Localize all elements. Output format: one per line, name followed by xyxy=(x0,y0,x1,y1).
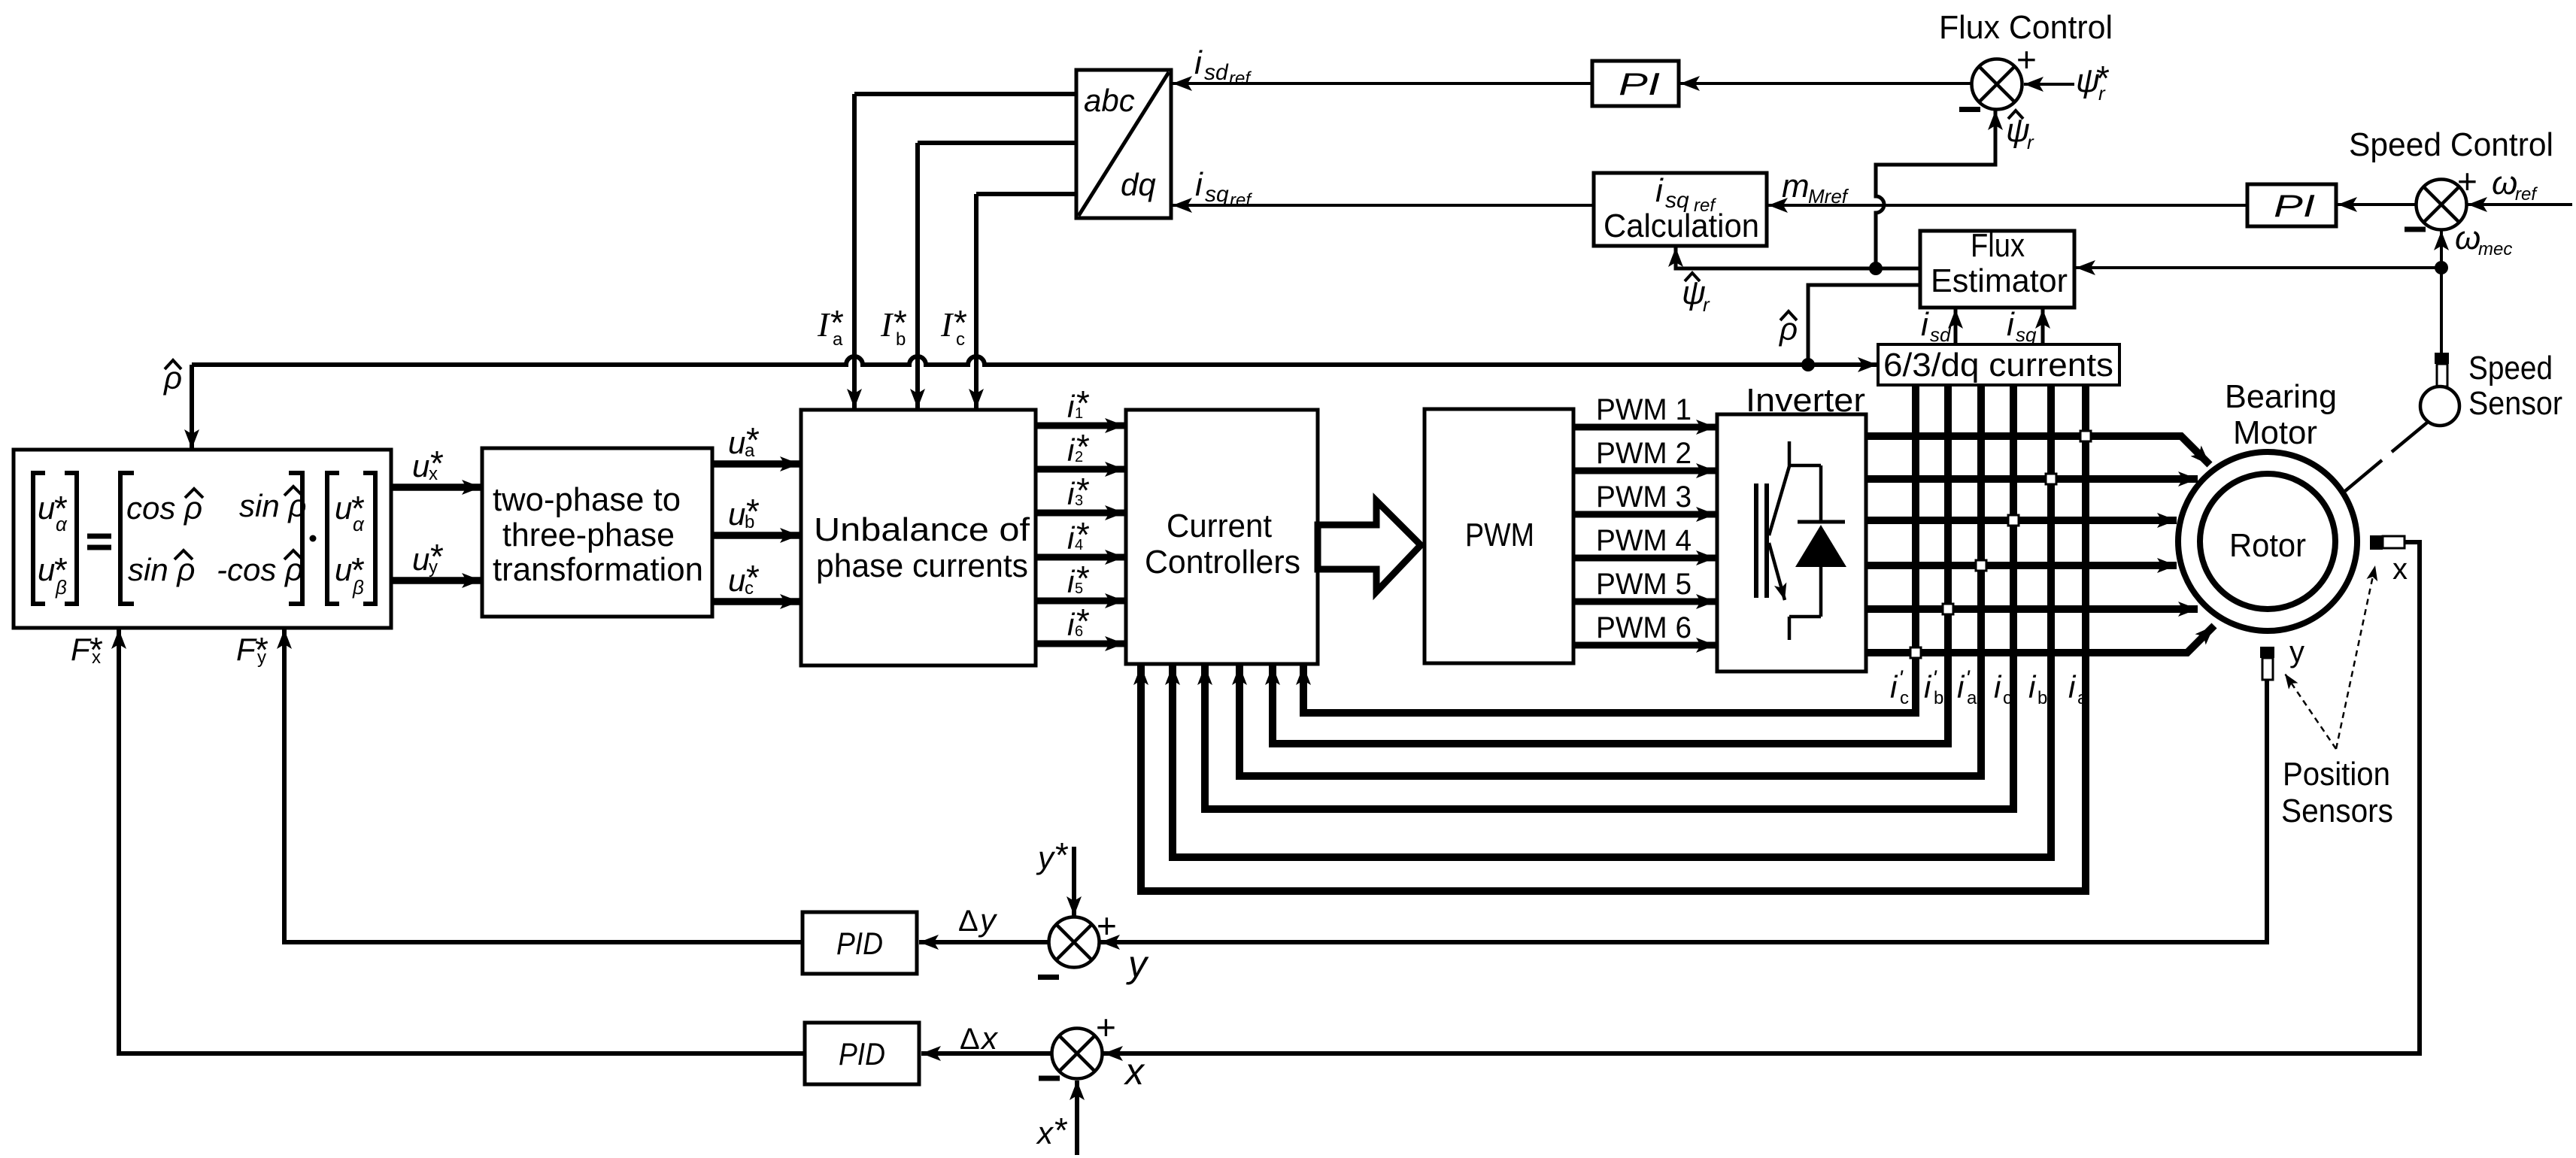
svg-text:y: y xyxy=(257,647,266,668)
dot operator xyxy=(310,535,317,542)
svg-text:b: b xyxy=(745,512,754,532)
summing junction flux control xyxy=(1972,59,2022,110)
svg-text:2: 2 xyxy=(1075,449,1083,465)
svg-text:+: + xyxy=(2457,162,2477,201)
svg-text:Estimator: Estimator xyxy=(1931,262,2068,299)
svg-text:r: r xyxy=(1703,293,1710,316)
x sensor white xyxy=(2383,536,2405,548)
svg-text:three-phase: three-phase xyxy=(502,517,675,553)
svg-text:a: a xyxy=(745,441,755,461)
block PI speed xyxy=(2247,184,2336,226)
IGBT bottom connect xyxy=(1789,615,1821,619)
svg-text:F: F xyxy=(71,632,92,667)
wire sense ib vertical+feedback xyxy=(1173,385,2051,857)
wire y* into y summing xyxy=(1072,847,1076,916)
wire flux summing to PI xyxy=(1680,82,1971,85)
svg-text:PWM: PWM xyxy=(1465,517,1534,553)
block matrix equation xyxy=(14,450,391,628)
svg-text:6/3/dq currents: 6/3/dq currents xyxy=(1883,347,2113,383)
svg-text:sq: sq xyxy=(2016,323,2037,346)
svg-text:x: x xyxy=(980,1020,999,1056)
svg-text:Calculation: Calculation xyxy=(1604,208,1759,244)
y sensor black xyxy=(2260,647,2274,658)
wire Ic* stub to abc/dq xyxy=(976,192,1076,196)
svg-text:PWM 6: PWM 6 xyxy=(1596,611,1692,644)
svg-text:y: y xyxy=(2289,635,2304,668)
svg-text:Δ: Δ xyxy=(958,905,979,938)
wire speed feedback to Flux Estimator xyxy=(2076,266,2441,269)
wire phase line 4 xyxy=(1866,562,2177,569)
svg-text:x: x xyxy=(92,647,101,668)
wire isd from 6/3/dq to Flux Estimator xyxy=(1954,309,1958,344)
svg-text:u: u xyxy=(728,425,745,460)
dashed arrow to x sensor xyxy=(2336,565,2375,749)
svg-text:Δ: Δ xyxy=(960,1023,980,1056)
svg-text:u: u xyxy=(728,562,745,598)
svg-text:ω: ω xyxy=(2455,220,2480,256)
svg-text:α: α xyxy=(353,513,365,535)
svg-text:c: c xyxy=(745,578,754,599)
block Unbalance of phase currents xyxy=(801,410,1036,665)
block PWM xyxy=(1425,409,1573,663)
wire PWM 6 xyxy=(1573,642,1716,649)
junction dot psi_r-hat xyxy=(1869,262,1883,275)
matrix brackets xyxy=(120,473,134,604)
svg-text:x: x xyxy=(1124,1050,1145,1093)
wire u*a two-phase to Unbalance xyxy=(712,460,800,468)
block PI flux xyxy=(1592,61,1679,106)
x sensor black xyxy=(2370,535,2383,550)
svg-text:u: u xyxy=(335,552,352,587)
svg-text:b: b xyxy=(2037,688,2047,708)
wire PWM 3 xyxy=(1573,511,1716,518)
svg-text:I: I xyxy=(817,305,831,344)
svg-text:*: * xyxy=(1055,835,1069,875)
wire x position feedback xyxy=(1103,542,2420,1053)
IGBT emitter with arrow xyxy=(1769,543,1785,600)
svg-text:b: b xyxy=(896,329,906,350)
svg-text:u: u xyxy=(38,552,55,587)
wire psi_r-hat from Flux Estimator to Calculation xyxy=(1676,247,1920,268)
svg-text:Sensors: Sensors xyxy=(2281,793,2393,829)
wire psi_r* into flux summing xyxy=(2024,83,2074,86)
svg-text:y: y xyxy=(978,902,998,938)
svg-text:sin ρ: sin ρ xyxy=(239,488,306,523)
svg-text:PID: PID xyxy=(836,926,883,961)
svg-text:x: x xyxy=(2392,553,2408,586)
svg-text:sq: sq xyxy=(1205,182,1229,207)
block two-phase to three-phase transformation xyxy=(482,448,712,617)
block Flux Estimator xyxy=(1920,231,2074,308)
wire x* into x summing xyxy=(1075,1081,1079,1155)
wire u*b two-phase to Unbalance xyxy=(712,532,800,539)
svg-text:PWM 3: PWM 3 xyxy=(1596,480,1692,514)
speed sensor stem white xyxy=(2437,364,2447,387)
svg-text:Motor: Motor xyxy=(2233,414,2317,451)
svg-text:α: α xyxy=(56,513,68,535)
wire sense i'a vertical+feedback xyxy=(1239,385,1981,776)
wire F*y PID to matrix xyxy=(284,629,803,942)
wire isq from 6/3/dq to Flux Estimator xyxy=(2041,309,2045,344)
IGBT top connect xyxy=(1789,464,1821,468)
svg-text:+: + xyxy=(1097,906,1117,945)
svg-text:sd: sd xyxy=(1930,323,1952,346)
svg-text:a: a xyxy=(1967,688,1977,708)
diode triangle xyxy=(1795,525,1846,567)
svg-text:m: m xyxy=(1782,168,1810,205)
motor outer circle xyxy=(2178,452,2357,631)
svg-text:+: + xyxy=(1096,1008,1116,1047)
wire sense i'c vertical+feedback xyxy=(1303,385,1916,713)
svg-text:Rotor: Rotor xyxy=(2229,527,2306,564)
tap square ia on phase 1 xyxy=(2080,431,2091,441)
svg-text:c: c xyxy=(956,329,965,350)
block PID y xyxy=(803,912,917,974)
block arrow Current Controllers to PWM xyxy=(1318,501,1421,592)
svg-text:Speed: Speed xyxy=(2468,350,2553,387)
svg-text:y: y xyxy=(1126,943,1149,985)
svg-text:i: i xyxy=(1195,166,1203,203)
svg-text:transformation: transformation xyxy=(493,551,703,588)
svg-text:u: u xyxy=(38,490,55,526)
wire rho-hat branch up to Flux Estimator xyxy=(1808,285,1920,365)
svg-text:i: i xyxy=(1194,44,1203,81)
wire i3* xyxy=(1036,510,1124,517)
wire u*c two-phase to Unbalance xyxy=(712,598,800,605)
wire omega_ref into speed summing xyxy=(2468,203,2572,206)
wire i4* xyxy=(1036,554,1124,561)
svg-text:Position: Position xyxy=(2283,756,2390,793)
IGBT bars xyxy=(1754,484,1758,598)
wire Ia* stub to abc/dq xyxy=(854,92,1076,96)
tap square i'b on phase 5 xyxy=(1943,604,1953,614)
svg-text:y: y xyxy=(1036,840,1056,875)
svg-text:cos ρ: cos ρ xyxy=(126,490,202,526)
wire F*x PID to matrix xyxy=(119,629,805,1053)
svg-text:ref: ref xyxy=(2515,184,2538,205)
wire omega_mec up into speed summing xyxy=(2440,231,2443,268)
motor inner circle xyxy=(2200,474,2335,609)
equals sign xyxy=(87,534,111,539)
wire i1* xyxy=(1036,423,1124,429)
svg-text:PI: PI xyxy=(2274,188,2315,223)
wire PWM 4 xyxy=(1573,555,1716,562)
svg-text:u: u xyxy=(335,490,352,526)
summing junction y xyxy=(1049,917,1100,968)
svg-text:PWM 5: PWM 5 xyxy=(1596,568,1692,601)
svg-text:c: c xyxy=(1900,688,1909,708)
svg-text:u: u xyxy=(728,496,745,532)
wire i2* xyxy=(1036,466,1124,473)
svg-text:u: u xyxy=(412,448,429,484)
svg-text:ref: ref xyxy=(1230,190,1252,211)
tap square ib on phase 2 xyxy=(2046,474,2056,484)
svg-text:r: r xyxy=(2098,82,2106,105)
IGBT emitter stub xyxy=(1788,617,1792,640)
svg-text:dq: dq xyxy=(1121,167,1156,202)
svg-text:*: * xyxy=(1054,1111,1068,1150)
svg-text:Inverter: Inverter xyxy=(1746,382,1865,419)
wire rho-hat down into matrix block xyxy=(190,365,194,449)
svg-text:two-phase to: two-phase to xyxy=(493,481,681,518)
svg-text:Bearing: Bearing xyxy=(2225,378,2337,415)
abc/dq diagonal xyxy=(1079,72,1169,216)
svg-text:PID: PID xyxy=(839,1036,885,1072)
wire isd_ref from flux PI to abc/dq xyxy=(1173,82,1592,85)
svg-text:i: i xyxy=(2007,306,2015,343)
wire Ia* vertical xyxy=(852,94,857,408)
wire sense ic vertical+feedback xyxy=(1205,385,2013,809)
svg-text:phase currents: phase currents xyxy=(816,547,1028,584)
svg-text:PWM 1: PWM 1 xyxy=(1596,393,1692,426)
svg-text:3: 3 xyxy=(1075,493,1083,509)
svg-text:a: a xyxy=(2077,688,2088,708)
svg-text:β: β xyxy=(352,576,364,599)
summing junction speed control xyxy=(2417,180,2467,230)
svg-text:u: u xyxy=(412,541,429,577)
svg-text:F: F xyxy=(236,632,257,667)
svg-text:Speed Control: Speed Control xyxy=(2349,126,2553,163)
wire i6* xyxy=(1036,641,1124,647)
left vector brackets xyxy=(33,473,45,604)
speed sensor circle xyxy=(2420,387,2459,426)
tap square ic on phase 3 xyxy=(2008,515,2019,526)
svg-text:c: c xyxy=(2003,688,2012,708)
svg-text:Controllers: Controllers xyxy=(1145,544,1300,581)
svg-text:sd: sd xyxy=(1204,60,1229,85)
wire phase line 2 xyxy=(1866,475,2198,483)
svg-text:x: x xyxy=(1036,1115,1054,1150)
wire Ic* vertical xyxy=(974,194,979,408)
tap square i'c on phase 6 xyxy=(1910,647,1921,658)
svg-text:PWM 2: PWM 2 xyxy=(1596,437,1692,470)
wire u*x matrix to two-phase block xyxy=(391,484,481,491)
svg-text:Unbalance of: Unbalance of xyxy=(814,511,1030,548)
block PID x xyxy=(805,1023,919,1084)
block Inverter xyxy=(1717,414,1866,671)
svg-text:Sensor: Sensor xyxy=(2468,385,2562,422)
wire y position feedback xyxy=(1100,680,2267,942)
wire speed sensor vertical xyxy=(2440,268,2443,353)
svg-text:r: r xyxy=(2027,131,2034,153)
svg-text:ref: ref xyxy=(1229,68,1252,89)
svg-text:Mref: Mref xyxy=(1808,185,1849,208)
summing junction x xyxy=(1052,1029,1103,1079)
svg-text:i: i xyxy=(1655,172,1664,209)
block isq_ref Calculation xyxy=(1594,173,1767,246)
speed sensor shaft diagonal xyxy=(2392,423,2427,452)
wire psi_r-hat vertical branch with hop over m_Mref xyxy=(1876,111,1995,268)
wire phase line 6 inverter to motor xyxy=(1866,626,2214,653)
svg-text:6: 6 xyxy=(1075,623,1083,640)
wire u*y matrix to two-phase block xyxy=(391,577,481,584)
svg-text:β: β xyxy=(55,576,67,599)
wire PWM 1 xyxy=(1573,424,1716,431)
right vector brackets xyxy=(327,473,339,604)
wire PWM 5 xyxy=(1573,599,1716,605)
svg-text:5: 5 xyxy=(1075,581,1083,597)
dashed arrow to y sensor xyxy=(2285,674,2336,749)
svg-text:x: x xyxy=(429,464,438,484)
svg-text:4: 4 xyxy=(1075,537,1083,553)
speed sensor stem black xyxy=(2435,353,2449,364)
svg-text:y: y xyxy=(429,557,438,577)
wire speed summing to speed PI xyxy=(2338,203,2417,206)
svg-text:Flux Control: Flux Control xyxy=(1939,9,2113,46)
wire Delta-y summing to PID xyxy=(919,940,1049,944)
wire sense ia vertical+feedback xyxy=(1141,385,2086,891)
svg-text:Flux: Flux xyxy=(1971,227,2025,264)
wire m_Mref from speed PI to Calculation xyxy=(1768,204,2247,207)
junction dot omega_mec xyxy=(2435,261,2448,274)
svg-text:PI: PI xyxy=(1619,66,1660,102)
svg-text:i: i xyxy=(1921,306,1929,343)
y sensor white xyxy=(2262,658,2273,680)
block Current Controllers xyxy=(1126,410,1318,664)
svg-text:ω: ω xyxy=(2492,165,2517,202)
wire Delta-x summing to PID xyxy=(921,1051,1051,1056)
junction dot rho-hat xyxy=(1801,358,1815,371)
wire i5* xyxy=(1036,598,1124,605)
wire PWM 2 xyxy=(1573,468,1716,474)
wire phase line 5 xyxy=(1866,605,2198,613)
svg-text:abc: abc xyxy=(1084,83,1135,118)
svg-text:a: a xyxy=(833,329,843,350)
diode anode line xyxy=(1819,567,1823,617)
wire Ib* vertical xyxy=(915,143,920,408)
wire sense i'b vertical+feedback xyxy=(1273,385,1948,744)
block 6/3/dq currents xyxy=(1878,344,2119,385)
wire rho-hat main horizontal (with hops over I* verticals) xyxy=(192,356,1877,365)
svg-text:I: I xyxy=(940,305,954,344)
svg-text:1: 1 xyxy=(1075,405,1083,422)
svg-text:PWM 4: PWM 4 xyxy=(1596,524,1692,557)
wire phase line 3 xyxy=(1866,517,2177,524)
block abc/dq xyxy=(1076,70,1171,218)
svg-text:sin ρ: sin ρ xyxy=(128,552,195,587)
diode cathode line xyxy=(1819,465,1823,521)
svg-text:b: b xyxy=(1934,688,1943,708)
svg-text:-cos ρ: -cos ρ xyxy=(217,552,303,587)
tap square i'a on phase 4 xyxy=(1976,560,1986,571)
svg-text:Current: Current xyxy=(1167,508,1272,544)
wire Ib* stub to abc/dq xyxy=(918,141,1076,145)
svg-text:I: I xyxy=(880,305,894,344)
svg-text:mec: mec xyxy=(2478,239,2512,259)
wire phase line 1 inverter to motor xyxy=(1866,436,2210,465)
wire isq_ref from Calculation to abc/dq xyxy=(1173,204,1594,207)
IGBT collector xyxy=(1769,441,1789,535)
